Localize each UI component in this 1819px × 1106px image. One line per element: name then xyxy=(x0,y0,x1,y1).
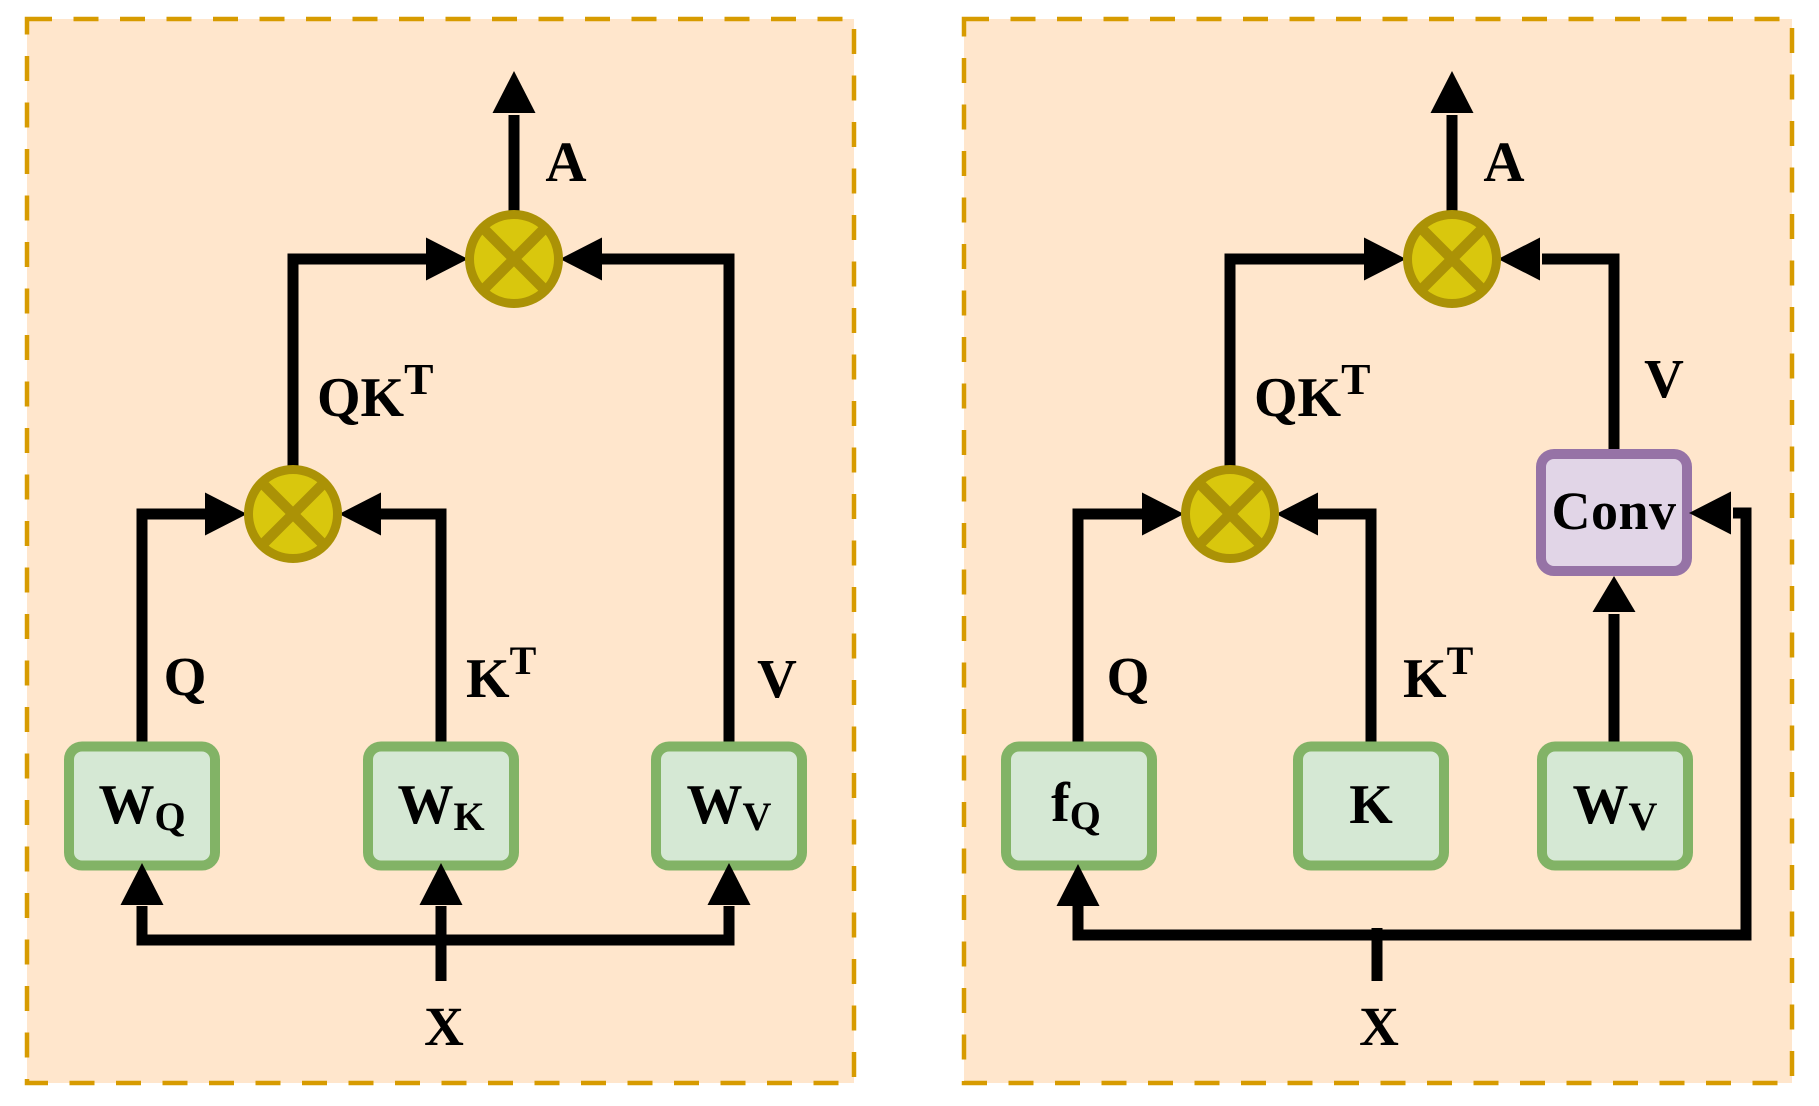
wire Q (fQ top to lower otimes) xyxy=(1078,514,1142,745)
wire V (WV top to top otimes) xyxy=(600,259,729,745)
otimes node top (A product) xyxy=(470,215,559,304)
arrowhead X into Conv xyxy=(1689,492,1731,535)
otimes node top right (A product) xyxy=(1408,215,1497,304)
svg-text:V: V xyxy=(757,648,797,709)
wire QKT (lower otimes to top otimes) xyxy=(1230,259,1366,467)
arrowhead X into WK xyxy=(420,863,463,905)
arrowhead V into top otimes xyxy=(560,238,602,281)
arrowhead Q into lower otimes xyxy=(205,493,247,536)
box WK xyxy=(368,747,514,866)
box WV left xyxy=(656,747,802,866)
otimes node lower right (QKT product) xyxy=(1186,470,1275,559)
wire X distribution and feedback to Conv xyxy=(1078,513,1746,935)
arrowhead QKT into top otimes xyxy=(426,238,468,281)
svg-text:K: K xyxy=(1349,774,1393,836)
wire X distribution xyxy=(142,906,729,940)
otimes node lower (QKT product) xyxy=(249,470,338,559)
arrowhead QKT into top otimes xyxy=(1364,238,1406,281)
svg-text:Q: Q xyxy=(164,646,207,707)
wire A (top otimes output) xyxy=(1447,115,1458,212)
svg-text:X: X xyxy=(1359,996,1399,1057)
arrowhead A xyxy=(493,71,536,113)
box K xyxy=(1298,747,1444,866)
wire WV to Conv xyxy=(1609,614,1620,745)
arrowhead X into fQ xyxy=(1057,864,1100,906)
svg-text:Conv: Conv xyxy=(1551,481,1676,541)
box WQ xyxy=(69,747,215,866)
svg-text:Q: Q xyxy=(1107,646,1150,707)
svg-text:V: V xyxy=(1644,348,1684,409)
arrowhead X into WV xyxy=(708,863,751,905)
box Conv xyxy=(1541,454,1687,571)
arrowhead V into top otimes xyxy=(1498,238,1540,281)
panel frame left (dashed) xyxy=(27,19,854,1083)
arrowhead KT into lower otimes xyxy=(1276,493,1318,536)
wire KT (K top to lower otimes) xyxy=(1316,514,1371,745)
panel frame right (dashed) xyxy=(964,19,1792,1083)
wire X stem right xyxy=(1372,928,1383,981)
svg-text:A: A xyxy=(545,131,586,194)
wire X stem xyxy=(436,906,447,981)
arrowhead WV into Conv xyxy=(1593,576,1636,612)
wire Q (WQ top to lower otimes) xyxy=(142,514,207,745)
box fQ xyxy=(1006,747,1152,866)
wire A (top otimes output) xyxy=(509,115,520,212)
wire QKT (lower otimes to top otimes) xyxy=(293,259,428,467)
arrowhead A xyxy=(1431,71,1474,113)
wire V (Conv top to top otimes) xyxy=(1542,259,1614,453)
svg-text:A: A xyxy=(1483,131,1524,194)
wire KT (WK top to lower otimes) xyxy=(379,514,441,745)
box WV right xyxy=(1542,747,1688,866)
arrowhead X into WQ xyxy=(121,863,164,905)
svg-text:X: X xyxy=(424,996,464,1057)
arrowhead KT into lower otimes xyxy=(339,493,381,536)
arrowhead Q into lower otimes xyxy=(1142,493,1184,536)
